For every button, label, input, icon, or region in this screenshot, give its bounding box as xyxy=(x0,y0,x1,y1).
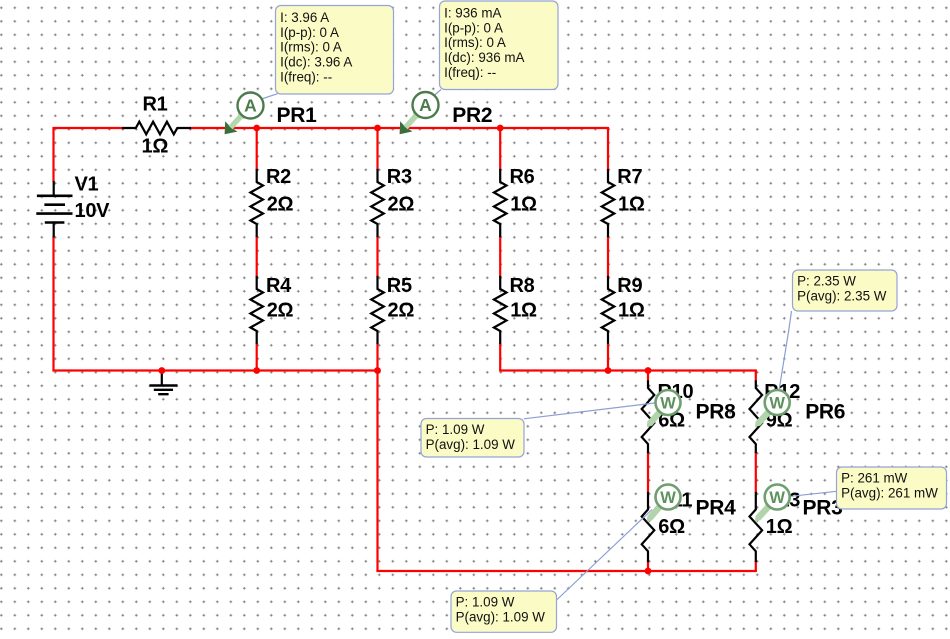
label probe PR4 xyxy=(696,496,737,519)
svg-text:W: W xyxy=(660,394,676,412)
label probe PR1 xyxy=(277,104,318,127)
svg-text:R5: R5 xyxy=(387,275,412,297)
svg-text:PR4: PR4 xyxy=(696,496,737,519)
wire R5 column bottom xyxy=(376,343,378,371)
label R6 reference xyxy=(510,166,535,188)
current probe PR1 (ammeter) xyxy=(225,93,264,135)
label R13 reference xyxy=(764,490,800,512)
node junction top at R6 xyxy=(497,125,504,132)
label R12 reference xyxy=(764,381,800,403)
svg-text:W: W xyxy=(769,489,785,507)
label R3 value 2&#937; xyxy=(388,193,415,215)
node junction bottom at R5 xyxy=(374,367,381,374)
label R4 value 2&#937; xyxy=(267,300,294,322)
wire R9 column bottom xyxy=(607,343,609,371)
wire left vertical lower xyxy=(52,236,54,370)
wire top bus segment node1 to node2 xyxy=(257,127,378,129)
wire R6-R8 column middle xyxy=(499,236,501,277)
svg-text:I(p-p): 0 A: I(p-p): 0 A xyxy=(444,20,503,35)
svg-text:I: 3.96 A: I: 3.96 A xyxy=(280,10,329,25)
callout box PR8 measurements xyxy=(421,419,524,458)
label R7 value 1&#937; xyxy=(618,193,645,215)
svg-text:P(avg): 261 mW: P(avg): 261 mW xyxy=(841,485,938,500)
callout leader to probe PR4 xyxy=(557,510,652,601)
label R10 value 6Ω xyxy=(658,410,685,432)
resistor R1 xyxy=(123,122,190,135)
svg-text:1Ω: 1Ω xyxy=(618,193,645,215)
label probe PR6 xyxy=(805,401,845,424)
svg-text:I(rms): 0 A: I(rms): 0 A xyxy=(444,35,506,50)
svg-text:1Ω: 1Ω xyxy=(510,300,537,322)
resistor R7 xyxy=(602,170,615,236)
resistor R6 xyxy=(494,170,507,236)
power probe PR4 (wattmeter) xyxy=(647,485,681,522)
callout box PR3 measurements xyxy=(837,467,947,509)
callout box PR1 measurements xyxy=(276,6,394,95)
svg-text:6Ω: 6Ω xyxy=(658,516,685,538)
label probe PR3 xyxy=(803,496,843,519)
callout leader to probe PR6 xyxy=(779,311,792,391)
wire top bus middle segment xyxy=(190,127,257,129)
wire R12-R13 column middle xyxy=(755,452,757,493)
wire top bus segment node2 to node3 xyxy=(378,127,501,129)
current probe PR2 (ammeter) xyxy=(400,92,439,134)
svg-text:1Ω: 1Ω xyxy=(618,300,645,322)
svg-text:I(rms): 0 A: I(rms): 0 A xyxy=(280,40,342,55)
label V1 value 10V xyxy=(75,200,111,222)
label R5 reference xyxy=(387,275,412,297)
svg-text:R3: R3 xyxy=(387,166,412,188)
wire R6 column top xyxy=(499,128,501,170)
node junction top at R3 xyxy=(374,125,381,132)
resistor R5 xyxy=(371,277,384,343)
wire R7 column top xyxy=(607,128,609,170)
wire lower bus xyxy=(376,570,757,572)
svg-text:I(dc): 3.96 A: I(dc): 3.96 A xyxy=(280,55,352,70)
wire top bus left segment xyxy=(54,127,124,129)
svg-text:I: 936 mA: I: 936 mA xyxy=(444,6,501,21)
svg-text:I(freq): --: I(freq): -- xyxy=(280,69,332,84)
svg-text:10V: 10V xyxy=(75,200,111,222)
svg-text:R9: R9 xyxy=(617,275,642,297)
label probe PR8 xyxy=(696,401,737,424)
label R11 value 6Ω xyxy=(658,516,685,538)
node junction bottom at R4 xyxy=(253,367,260,374)
power probe PR6 (wattmeter) xyxy=(755,390,790,427)
svg-text:R7: R7 xyxy=(617,166,642,188)
resistor R2 xyxy=(250,170,263,236)
svg-text:2Ω: 2Ω xyxy=(388,193,415,215)
wire R5 node down to lower bus xyxy=(376,371,378,572)
power probe PR8 (wattmeter) xyxy=(647,390,681,427)
svg-text:R2: R2 xyxy=(266,166,291,188)
wire R3-R5 column middle xyxy=(376,236,378,277)
resistor R9 xyxy=(602,277,615,343)
wire R13 column bottom stub xyxy=(755,561,757,572)
node junction mid bus at R10 column xyxy=(645,367,652,374)
label R10 reference xyxy=(658,381,694,403)
label R11 reference xyxy=(658,490,693,512)
svg-text:R4: R4 xyxy=(266,275,292,297)
wire R7-R9 column middle xyxy=(607,236,609,277)
svg-text:V1: V1 xyxy=(75,173,99,195)
svg-text:R6: R6 xyxy=(510,166,535,188)
label R12 value 9Ω xyxy=(766,410,793,432)
label R7 reference xyxy=(617,166,642,188)
callout box PR2 measurements xyxy=(440,1,559,90)
node junction lower bus at R11 column xyxy=(645,568,652,575)
label R9 value 1&#937; xyxy=(618,300,645,322)
ground symbol xyxy=(150,371,178,395)
svg-text:PR6: PR6 xyxy=(805,401,845,424)
label R1 value 1Ω xyxy=(142,136,169,158)
svg-text:I(dc): 936 mA: I(dc): 936 mA xyxy=(444,50,524,65)
resistor R4 xyxy=(250,277,263,343)
label R2 reference xyxy=(266,166,291,188)
resistor R13 xyxy=(750,493,763,561)
label V1 reference xyxy=(75,173,99,195)
svg-text:PR8: PR8 xyxy=(696,401,737,424)
label probe PR2 xyxy=(452,104,492,127)
label R2 value 2&#937; xyxy=(267,193,294,215)
label R1 reference xyxy=(143,93,168,115)
label R8 value 1&#937; xyxy=(510,300,537,322)
svg-text:P: 1.09 W: P: 1.09 W xyxy=(426,422,485,437)
wire R10-R11 column middle xyxy=(647,452,649,493)
wire mid bus right segment xyxy=(499,369,757,371)
svg-text:R8: R8 xyxy=(510,275,535,297)
node junction mid bus at R9 xyxy=(605,367,612,374)
svg-text:2Ω: 2Ω xyxy=(388,300,415,322)
svg-text:P(avg): 1.09 W: P(avg): 1.09 W xyxy=(456,609,546,624)
wire bottom bus left xyxy=(52,369,377,371)
resistor R11 xyxy=(642,493,655,561)
svg-text:P: 261 mW: P: 261 mW xyxy=(841,471,908,486)
svg-text:PR1: PR1 xyxy=(277,104,318,127)
callout box PR6 measurements xyxy=(793,270,898,311)
label R13 value 1Ω xyxy=(766,516,793,538)
callout leader to probe PR8 xyxy=(524,403,655,419)
label R3 reference xyxy=(387,166,412,188)
wire R3 column top xyxy=(376,128,378,170)
resistor R8 xyxy=(494,277,507,343)
wire R11 column bottom stub xyxy=(647,561,649,572)
svg-text:W: W xyxy=(769,394,785,412)
node junction ground xyxy=(158,367,165,374)
battery V1 xyxy=(36,182,72,236)
svg-text:I(freq): --: I(freq): -- xyxy=(444,65,496,80)
resistor R3 xyxy=(371,170,384,236)
wire R8 column bottom xyxy=(499,343,501,371)
wire left vertical upper xyxy=(52,127,54,182)
svg-text:P(avg): 1.09 W: P(avg): 1.09 W xyxy=(426,437,516,452)
callout box PR4 measurements xyxy=(451,591,557,632)
wire R4 column bottom xyxy=(256,343,258,371)
power probe PR3 (wattmeter) xyxy=(755,485,790,522)
wire R12 column top stub xyxy=(755,371,757,382)
wire R10 column top stub xyxy=(647,371,649,382)
svg-text:PR2: PR2 xyxy=(452,104,492,127)
svg-text:W: W xyxy=(660,489,676,507)
svg-text:P(avg): 2.35 W: P(avg): 2.35 W xyxy=(797,288,887,303)
label R5 value 2&#937; xyxy=(388,300,415,322)
svg-text:A: A xyxy=(419,95,432,115)
svg-text:1Ω: 1Ω xyxy=(142,136,169,158)
node junction top at R2 xyxy=(253,125,260,132)
svg-text:R1: R1 xyxy=(143,93,168,115)
wire R2-R4 column middle xyxy=(256,236,258,277)
resistor R12 xyxy=(750,382,763,453)
svg-text:I(p-p): 0 A: I(p-p): 0 A xyxy=(280,25,339,40)
label R6 value 1&#937; xyxy=(510,193,537,215)
callout leader to probe PR1 xyxy=(262,94,278,99)
resistor R10 xyxy=(642,382,655,453)
svg-text:2Ω: 2Ω xyxy=(267,193,294,215)
wire top bus segment node3 to right corner xyxy=(500,127,609,129)
svg-text:2Ω: 2Ω xyxy=(267,300,294,322)
callout leader to probe PR3 xyxy=(791,491,837,496)
wire R2 column top xyxy=(256,128,258,170)
label R4 reference xyxy=(266,275,292,297)
svg-text:1Ω: 1Ω xyxy=(766,516,793,538)
svg-text:P: 2.35 W: P: 2.35 W xyxy=(797,274,856,289)
svg-text:1Ω: 1Ω xyxy=(510,193,537,215)
label R9 reference xyxy=(617,275,642,297)
callout leader to probe PR2 xyxy=(434,90,441,97)
svg-text:A: A xyxy=(244,96,257,116)
svg-text:P: 1.09 W: P: 1.09 W xyxy=(456,595,515,610)
label R8 reference xyxy=(510,275,535,297)
